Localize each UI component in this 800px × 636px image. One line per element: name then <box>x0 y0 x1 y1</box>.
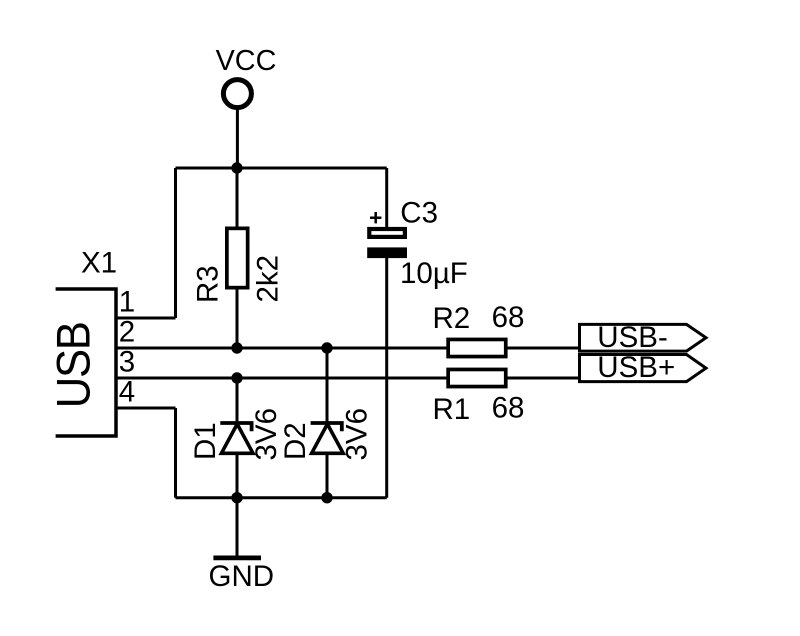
svg-text:C3: C3 <box>400 197 438 230</box>
svg-text:10µF: 10µF <box>400 257 468 290</box>
wire C3 top drop <box>385 168 388 227</box>
wire GND stub <box>236 498 239 558</box>
svg-text:R1: R1 <box>433 393 471 426</box>
junction node D1/GND rail <box>231 492 242 503</box>
svg-text:VCC: VCC <box>216 45 277 77</box>
capacitor C3 top plate <box>369 229 405 237</box>
wire R2 to USB- flag <box>506 347 580 350</box>
zener diode D2 <box>279 408 373 461</box>
svg-text:1: 1 <box>119 286 135 319</box>
svg-text:USB-: USB- <box>597 321 667 354</box>
junction node R3/pin2 <box>231 342 242 353</box>
svg-text:3V6: 3V6 <box>340 408 373 461</box>
power symbol VCC <box>223 80 251 108</box>
svg-text:USB: USB <box>47 322 100 408</box>
wire GND rail <box>176 496 387 499</box>
svg-text:4: 4 <box>119 376 135 409</box>
svg-text:D2: D2 <box>279 422 312 460</box>
resistor R2 body <box>448 339 506 356</box>
wire pin2 to R2 <box>116 347 448 350</box>
capacitor C3 bottom plate <box>367 247 407 258</box>
wire D1 branch <box>236 378 239 498</box>
wire VCC rail <box>176 167 387 170</box>
svg-text:R2: R2 <box>433 302 471 335</box>
junction node D2/GND rail <box>321 492 332 503</box>
wire R3 bottom to D- net <box>236 288 239 348</box>
wire R3 top <box>236 168 239 228</box>
resistor R1 body <box>448 369 506 386</box>
svg-text:X1: X1 <box>81 246 117 279</box>
wire pin1 riser <box>174 168 177 318</box>
wire pin4 stub <box>116 407 176 410</box>
svg-text:3: 3 <box>119 346 135 379</box>
svg-text:GND: GND <box>209 560 275 593</box>
wire C3 bottom drop <box>385 258 388 498</box>
wire pin1 stub <box>116 317 176 320</box>
resistor R3 body <box>227 228 248 287</box>
svg-text:68: 68 <box>492 301 525 334</box>
svg-text:R3: R3 <box>192 265 225 303</box>
svg-text:D1: D1 <box>189 422 222 460</box>
ground symbol <box>209 558 275 593</box>
junction node D1/pin3 <box>231 372 242 383</box>
connector X1 outline <box>56 289 116 436</box>
svg-text:2k2: 2k2 <box>251 255 284 303</box>
junction node VCC/R3 <box>231 162 242 173</box>
svg-text:68: 68 <box>492 392 525 425</box>
svg-text:2: 2 <box>119 316 135 349</box>
zener diode D1 <box>189 408 283 461</box>
net flag USB+ <box>580 351 707 384</box>
wire pin4 dropper <box>174 408 177 498</box>
wire pin3 to R1 <box>116 377 448 380</box>
net flag USB- <box>580 321 707 354</box>
wire VCC drop <box>236 110 239 169</box>
wire D2 branch <box>326 348 329 498</box>
junction node D2/pin2 <box>321 342 332 353</box>
plus sign <box>370 212 381 223</box>
svg-text:USB+: USB+ <box>597 351 675 384</box>
wire R1 to USB+ flag <box>506 377 580 380</box>
